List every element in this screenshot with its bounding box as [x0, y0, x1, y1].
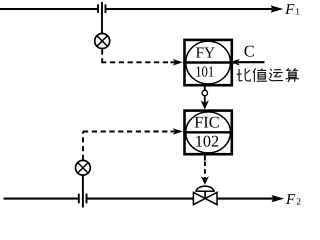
svg-text:F: F	[284, 2, 295, 18]
svg-text:F: F	[285, 192, 296, 208]
label ratio computation (suan)	[285, 68, 299, 82]
label ratio computation (zhi)	[253, 68, 267, 82]
connector stub FY bottom	[204, 87, 206, 91]
label ratio computation (bi)	[237, 68, 251, 81]
valve body left triangle	[193, 192, 205, 204]
pipe F1 left segment	[0, 8, 97, 10]
label ratio computation (yun)	[269, 69, 283, 81]
valve actuator dome	[196, 186, 214, 191]
node circle between FY and FIC	[202, 90, 207, 95]
pipe F1 arrowhead	[271, 5, 284, 12]
orifice plate 1 right tick	[105, 4, 107, 13]
pipe F2 left segment	[4, 198, 78, 200]
arrowhead onto valve	[201, 176, 209, 185]
function block FY square	[185, 40, 232, 85]
sensing line from orifice 2	[82, 176, 84, 208]
controller block FIC square	[185, 111, 232, 155]
signal wire T1 to FY vertical	[101, 49, 103, 62]
orifice plate 1 left tick	[97, 4, 99, 13]
transmitter T1 cross	[97, 36, 108, 47]
FY middle line	[183, 61, 233, 63]
pipe F1 right segment	[106, 8, 272, 10]
svg-text:1: 1	[295, 8, 300, 18]
C input line	[238, 61, 265, 63]
svg-text:2: 2	[296, 198, 301, 208]
orifice plate 2 left tick	[78, 194, 80, 204]
signal wire FIC to valve stub	[204, 156, 206, 161]
signal wire T2 to FIC horizontal	[83, 131, 171, 133]
FIC middle line	[183, 131, 233, 133]
orifice plate 2 right tick	[86, 194, 88, 204]
svg-text:FIC: FIC	[194, 113, 219, 132]
pipe F2 middle segment	[87, 198, 193, 200]
pipe F2 right segment	[217, 198, 273, 200]
arrowhead into FY right	[230, 59, 240, 66]
arrowhead into FIC left	[173, 128, 183, 135]
sensing line from orifice 1	[101, 2, 103, 34]
connector line into FIC top	[204, 96, 206, 104]
transmitter circle T1	[95, 34, 110, 49]
svg-text:102: 102	[195, 132, 219, 151]
svg-text:FY: FY	[196, 45, 215, 62]
svg-text:101: 101	[195, 64, 214, 81]
valve stem	[204, 191, 206, 198]
signal wire FIC to valve dashed	[204, 161, 206, 179]
transmitter T2 cross	[78, 163, 88, 173]
arrowhead into FY left	[173, 59, 183, 66]
valve body right triangle	[205, 192, 217, 204]
arrowhead into FIC top	[201, 100, 209, 109]
transmitter circle T2	[76, 160, 91, 175]
signal wire T2 to FIC vertical	[82, 132, 84, 161]
signal wire T1 to FY horizontal	[101, 61, 170, 63]
svg-text:C: C	[244, 42, 255, 61]
controller block FIC circle	[186, 112, 231, 153]
pipe F2 arrowhead	[272, 195, 285, 202]
function block FY circle	[186, 41, 231, 84]
